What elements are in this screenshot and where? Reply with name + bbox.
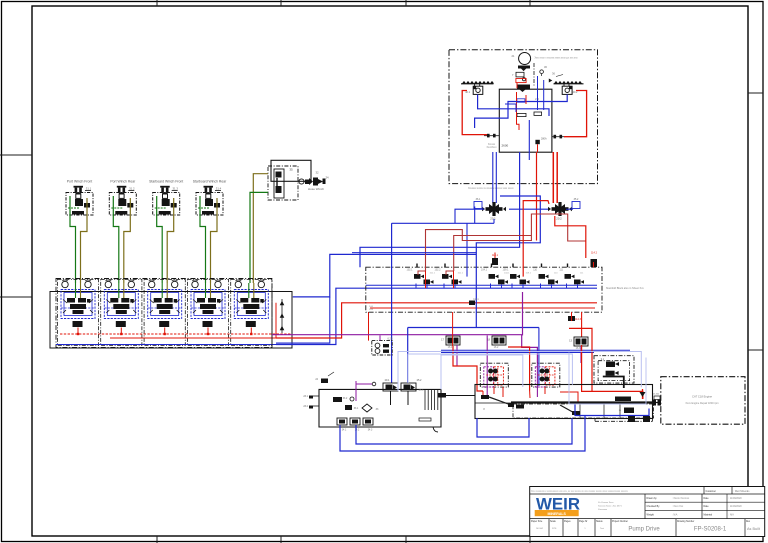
wire blue manifold tank link (276, 297, 330, 343)
wire red gearbox internal drop (517, 92, 520, 130)
svg-text:Weight: Weight (647, 513, 655, 516)
wire red 114.3 feed (571, 312, 573, 321)
wire green supply from station 31.3 (157, 196, 163, 283)
svg-text:109.1: 109.1 (526, 272, 532, 274)
svg-text:ISO A2: ISO A2 (536, 527, 544, 530)
return filters 34.1-34.3 (337, 418, 373, 432)
wire blue bottom loop inner (477, 418, 529, 437)
svg-text:Xxxxxx: Xxxxxx (488, 144, 496, 146)
pilot valve 17/16.1 (441, 336, 460, 349)
gearbox port marks left (484, 134, 499, 138)
engine box internal divider (533, 63, 535, 87)
gauge panel 15 (372, 338, 393, 356)
pilot valve 18/16.2 (487, 336, 506, 349)
svg-text:34.3: 34.3 (368, 430, 373, 432)
svg-text:29.1: 29.1 (385, 379, 390, 382)
wire pale blue case drain 1 (398, 352, 641, 392)
manifold section 2 relief valve (116, 321, 126, 327)
svg-text:35.2: 35.2 (574, 198, 579, 201)
svg-text:Port Winch Front: Port Winch Front (67, 180, 92, 184)
wire blue engine drain (575, 404, 649, 416)
reservoir tank (313, 389, 441, 432)
winch control manifold outer housing (50, 279, 292, 349)
manifold section 4 motor circles (192, 280, 221, 288)
pto pump 9.2 (606, 371, 619, 376)
svg-text:110: 110 (533, 269, 537, 272)
svg-text:Test: Test (600, 527, 604, 530)
valve 270B inside gearbox (517, 112, 542, 117)
svg-text:34: 34 (325, 176, 329, 180)
cartridge valve group 104.1 (481, 264, 510, 285)
manifold section 3 motor circles (149, 280, 178, 288)
manifold section 2 drain stub red (120, 328, 122, 335)
wire olive return from station 31.2 (124, 198, 131, 283)
svg-text:NTS: NTS (552, 528, 557, 530)
svg-text:104.1: 104.1 (504, 272, 510, 274)
wire green to hose winch (250, 192, 268, 283)
wire purple pilot rail long run (272, 335, 537, 363)
tank accessories left (303, 372, 379, 412)
svg-text:XxxxXxxx: XxxxXxxx (487, 147, 498, 149)
svg-text:Scale: Scale (550, 521, 556, 523)
svg-text:Date: Date (704, 497, 710, 500)
svg-text:Page Nr: Page Nr (579, 520, 588, 523)
hose winch motor 32 (299, 171, 329, 192)
mid manifold block enclosure (366, 267, 602, 312)
svg-text:Drawing Number: Drawing Number (677, 520, 694, 523)
wire red suction left (462, 91, 487, 135)
pto pump 9.1 (601, 359, 619, 367)
cartridge valve group 110 (533, 264, 558, 285)
wire blue parallel inside manifold block (366, 284, 597, 286)
manifold section 3 pilot valve envelope blue (148, 290, 182, 319)
svg-text:Xxxx xxxx x xxxxxx xxxxx xxxx: Xxxx xxxx x xxxxxx xxxxx xxxx g x xxx xx… (534, 58, 578, 60)
wire blue gearbox exit mid (528, 120, 530, 160)
title block data cells (645, 494, 765, 519)
filler strainer 7 (512, 66, 530, 81)
mid manifold red return rail (370, 307, 595, 309)
check valve 114.1 (492, 253, 499, 266)
purple gauge link (356, 382, 376, 386)
wire blue feed to pump 20.1 (493, 152, 497, 203)
tank outlet valve 27.3 (438, 393, 475, 398)
svg-text:20.2: 20.2 (556, 217, 562, 221)
svg-text:6.2B: 6.2B (388, 338, 393, 341)
engine internal blue detail (505, 104, 516, 112)
wire blue pair horizontal y350 (441, 350, 630, 352)
wire olive return from station 31.4 (211, 198, 218, 283)
charge pump 40.1 (465, 84, 483, 95)
svg-text:101.1: 101.1 (458, 272, 464, 274)
pto pump enclosure (dash-dot) (594, 356, 634, 383)
svg-text:: Weir Minerals: : Weir Minerals (734, 490, 751, 493)
manifold section 2 motor circles (105, 280, 134, 288)
svg-text:Starboard Winch Front: Starboard Winch Front (149, 180, 183, 184)
wire blue loop pump1 to block (W1) (476, 196, 540, 328)
swash control box 7.1 (480, 363, 508, 387)
svg-text:102.1: 102.1 (407, 269, 414, 272)
wire red valve17 to swash box1 (453, 346, 483, 391)
pump coupling cluster (517, 85, 530, 93)
svg-text:23.1: 23.1 (303, 395, 308, 398)
tank suction pickups (391, 391, 409, 405)
valve group 102.2 blue drops (444, 284, 455, 289)
svg-text:Port Winch Rear: Port Winch Rear (110, 180, 136, 184)
manifold section 3 relief valve (159, 321, 169, 327)
manifold section 1 relief valve (73, 321, 83, 327)
wire purple tank pilot stub (355, 381, 357, 401)
title block address (598, 502, 622, 511)
svg-text:23 40k: 23 40k (653, 394, 659, 396)
svg-text:: N/A: : N/A (729, 513, 735, 516)
manifold section 1 pilot valve envelope blue (61, 290, 95, 319)
wire red feed to pump 20.2 (double) (553, 152, 557, 203)
wire red block to gauge panel (368, 312, 370, 341)
svg-text:Pages: Pages (564, 521, 571, 523)
wire olive return from station 31.3 (167, 198, 174, 283)
wire blue gearbox drop to web (360, 152, 520, 267)
manifold section 5 directional valve cluster (236, 283, 266, 314)
svg-text:Checked By: Checked By (647, 505, 661, 508)
svg-text:20.1: 20.1 (490, 217, 496, 221)
charge pump 40.2 (562, 84, 578, 95)
svg-text:Project Number: Project Number (612, 520, 628, 523)
winch valve station 31.4 (Starboard Winch Rear) (193, 180, 227, 216)
svg-text:Date: Date (704, 505, 710, 508)
manifold section 3 drain stub red (164, 328, 166, 335)
charge pump 29.2 on tank (401, 379, 424, 392)
manifold section 4 relief valve (203, 321, 213, 327)
wire blue manifold A-port to web (293, 254, 477, 297)
svg-text:35: 35 (289, 168, 293, 172)
cartridge valve group 111 (559, 264, 584, 285)
valve group 102.2 maroon feed elbow (446, 271, 454, 288)
svg-text:2600: 2600 (502, 144, 509, 148)
manifold section 2 enclosure (101, 280, 142, 346)
wire red suction right (564, 91, 587, 137)
wire red swash box1 to gearbox (493, 387, 495, 394)
wire blue bottom loop outer (340, 416, 585, 452)
manifold section 1 drain stub red (77, 328, 79, 335)
svg-text:114.2: 114.2 (591, 252, 598, 255)
svg-text:102.2: 102.2 (435, 269, 442, 272)
wire green supply from station 31.4 (200, 196, 206, 283)
check valve 36 (549, 72, 563, 83)
wire purple pilot drop from block (522, 292, 524, 335)
wire blue pump1 out right (509, 208, 548, 210)
manifold section 5 pilot valve envelope blue (234, 290, 268, 319)
svg-text:Status: Status (596, 520, 603, 523)
manifold section 3 directional valve cluster (150, 283, 180, 314)
wire purple valve17 drop (456, 345, 458, 366)
wire green supply from station 31.2 (113, 196, 119, 283)
svg-text:111.1: 111.1 (473, 299, 479, 301)
svg-text:280A: 280A (541, 138, 547, 141)
svg-text:Customer: Customer (706, 490, 717, 493)
wire blue bottom loop middle (356, 418, 572, 444)
svg-text:Xxxxxx Xxxxx .Xxx 4571: Xxxxxx Xxxxx .Xxx 4571 (598, 506, 622, 508)
engine coupling (653, 394, 662, 406)
svg-text:As Built: As Built (747, 527, 761, 531)
wire green supply from station 31.1 (70, 196, 76, 283)
wire red valve13 to engine inlet (582, 345, 643, 399)
svg-text:16.3: 16.3 (576, 347, 581, 350)
gearbox clutch symbol right (560, 397, 631, 416)
wire red right drop to gearbox (569, 328, 592, 391)
wire blue case drain right (475, 94, 568, 128)
svg-text:CAT C18 Engine: CAT C18 Engine (692, 395, 712, 399)
manifold section 4 enclosure (187, 280, 228, 346)
gearbox shaft main (511, 401, 653, 403)
cartridge valve group 102.2 (435, 264, 464, 285)
solenoid 280A (535, 138, 547, 153)
engine internal red detail (525, 95, 527, 104)
wire red gearbox drop to web (536, 152, 538, 241)
suction strainer rail right (554, 81, 584, 84)
wire red pump2 bottom to check 114.2 (555, 209, 586, 258)
svg-text:33.1: 33.1 (354, 408, 359, 410)
svg-text:Pump Drive: Pump Drive (628, 527, 660, 533)
wire blue case drain left (478, 94, 549, 116)
main pump 20.1 (474, 198, 506, 221)
pto thick link (603, 377, 624, 389)
svg-text:Manifold Block also in Sheet X: Manifold Block also in Sheet Xxx (606, 286, 644, 290)
cartridge valve group 102.1 (407, 264, 436, 285)
svg-text:104.1: 104.1 (481, 269, 488, 272)
svg-text:40.2: 40.2 (573, 91, 578, 94)
svg-text:31.2: 31.2 (129, 187, 135, 191)
pilot valve 13/16.3 (569, 337, 588, 350)
svg-text:Drawn by: Drawn by (647, 497, 658, 500)
svg-text:Xx Xxxxxx Xxxx: Xx Xxxxxx Xxxx (598, 502, 614, 504)
svg-text:31.3: 31.3 (172, 187, 178, 191)
wire maroon staircase A (426, 214, 586, 271)
manifold section 3 enclosure (144, 280, 185, 346)
valve 111.1 on red rail (469, 299, 479, 305)
manifold section 1 directional valve cluster (63, 283, 93, 314)
wire purple valve13 drop (580, 346, 582, 363)
wire red filter drop (516, 79, 526, 89)
svg-text:: 11/03/2020: : 11/03/2020 (729, 497, 743, 500)
wire olive return from station 31.1 (81, 198, 88, 283)
svg-text:: 11/03/2020: : 11/03/2020 (729, 505, 743, 508)
engine block lower small valves (619, 408, 650, 423)
valve group 110 blue drops (541, 284, 552, 289)
gearbox lower detail boxes (419, 404, 654, 421)
svg-text:25.2: 25.2 (417, 379, 422, 382)
svg-text:32: 32 (315, 171, 319, 175)
winch valve station 31.1 (Port Winch Front) (66, 180, 93, 216)
manifold section 1 motor circles (62, 280, 91, 288)
wire blue rail y327.5 (408, 328, 539, 387)
valve group 109.1 blue drops (512, 284, 523, 289)
svg-text:Material: Material (704, 513, 713, 516)
gauge 30 (540, 65, 548, 76)
wire red manifold pressure (276, 303, 597, 338)
wire pale blue case drain 2 (408, 354, 572, 385)
wire lavender loop around swash box2 (569, 353, 646, 405)
wire purple valve18 drop (486, 335, 488, 397)
gearbox clutch symbol left (481, 395, 514, 411)
svg-text:31.4: 31.4 (216, 187, 222, 191)
wire red 114.3 drop (581, 312, 583, 337)
wire blue tank rail y223 (392, 207, 494, 384)
svg-text:101.1: 101.1 (430, 272, 436, 274)
cartridge valve group 109.1 (503, 264, 532, 285)
gearbox internal red piping (483, 387, 578, 403)
suction strainer rail left (461, 81, 494, 84)
svg-text:40.1: 40.1 (465, 91, 470, 94)
wire magenta through swash box2 (536, 363, 538, 397)
svg-text:: Xxxxx Xxxxxxx: : Xxxxx Xxxxxxx (672, 497, 690, 500)
winch valve station 31.3 (Starboard Winch Front) (149, 180, 183, 216)
title block (530, 487, 765, 537)
engine block CAT C18 (661, 377, 745, 425)
svg-text:114.3: 114.3 (575, 318, 582, 321)
main pump 20.2 (548, 198, 580, 221)
manifold section 4 pilot valve envelope blue (191, 290, 225, 319)
svg-text:Xxxx Engine Repair 1800 rpm: Xxxx Engine Repair 1800 rpm (685, 402, 718, 405)
svg-text:FP-S0208-1: FP-S0208-1 (694, 527, 727, 533)
valve group 104.1 blue drops (491, 284, 502, 289)
svg-text:31.1: 31.1 (86, 187, 92, 191)
charge pump 29.1 on tank (383, 379, 398, 391)
svg-text:Hose Winch: Hose Winch (308, 187, 325, 191)
svg-text:16.2: 16.2 (494, 346, 499, 349)
wire blue gauge drops (538, 76, 544, 110)
wire maroon staircase B (454, 236, 532, 272)
wire blue pump link y252.6 (352, 252, 476, 254)
title block bottom row (531, 519, 761, 537)
valve 270A inside gearbox (517, 98, 540, 102)
wire red swash box2 to gearbox (544, 387, 546, 394)
svg-text:: N/A: : N/A (672, 513, 678, 516)
engine red inlet valve (640, 389, 646, 399)
manifold section 4 directional valve cluster (193, 283, 223, 314)
wire purple gauge panel stub (379, 335, 381, 340)
svg-text:25.3: 25.3 (419, 389, 424, 392)
valve group 111 blue drops (567, 284, 578, 289)
winch valve station 31.2 (Port Winch Rear) (109, 180, 136, 216)
svg-text:34.1: 34.1 (342, 430, 347, 432)
transfer gearbox housing (475, 385, 653, 422)
power unit enclosure (dash-dot) (449, 50, 598, 184)
manifold section 5 drain stub red (250, 328, 252, 335)
svg-text:16.1: 16.1 (448, 346, 453, 349)
manifold section 4 drain stub red (207, 328, 209, 335)
svg-text:Starboard Winch Rear: Starboard Winch Rear (193, 180, 227, 184)
wire red check 114.2 drop into block (593, 262, 595, 267)
manifold section 2 directional valve cluster (106, 283, 136, 314)
pump drive gearbox 2600 (487, 89, 552, 152)
manifold block port labels (369, 306, 373, 311)
wire blue manifold tank to mid manifold block (276, 288, 597, 344)
manifold outlet check valves (272, 292, 292, 349)
manifold blue tank rail (56, 344, 276, 346)
manifold section 5 relief valve (246, 321, 256, 327)
svg-text:MINERALS: MINERALS (548, 512, 567, 516)
wire olive to hose winch (253, 174, 268, 283)
manifold section 2 pilot valve envelope blue (104, 290, 138, 319)
gearbox port marks right (552, 135, 565, 139)
swash control box 7.2 (532, 363, 560, 387)
svg-text:36.1: 36.1 (476, 198, 481, 201)
check valve 114.2 (591, 252, 598, 268)
weir logo (535, 495, 580, 516)
svg-text:Paper Size: Paper Size (531, 520, 543, 523)
wire pale blue case drain 3 (441, 355, 523, 389)
svg-text:33.2: 33.2 (343, 398, 348, 400)
svg-text:Xxx xxxxxxxx x xxxxxxxxxx xxx: Xxx xxxxxxxx x xxxxxxxxxx xxx xxx, xx xx… (531, 491, 629, 493)
manifold section 5 enclosure (231, 280, 272, 346)
manifold section 1 enclosure (57, 280, 98, 346)
manifold red drain rail (110, 337, 276, 339)
valve group 102.1 maroon feed elbow (418, 271, 426, 288)
wire red pump2 left to block (W2) (523, 201, 549, 277)
valve group 102.1 blue drops (416, 284, 427, 289)
breather / filler cap 21 (512, 53, 579, 65)
svg-text:: Xxxx Xxx: : Xxxx Xxx (672, 505, 684, 508)
wire red valve18 to gearbox (508, 347, 530, 391)
svg-text:109.1: 109.1 (503, 269, 510, 272)
svg-text:23.2: 23.2 (303, 405, 308, 408)
manifold section 5 motor circles (235, 280, 264, 288)
svg-text:Xxxxxxx xxxxx xx xxxxxxx xxxxx: Xxxxxxx xxxxx xx xxxxxxx xxxxxx xxxx xxx… (468, 188, 514, 190)
check valve 114.3 (568, 316, 582, 321)
hose winch valve block 35 (268, 160, 311, 200)
svg-text:Xxxxxxxx: Xxxxxxxx (598, 509, 608, 511)
manifold red pilot rail (dashed) (60, 333, 292, 335)
wire red valve rail drop left (452, 312, 454, 346)
